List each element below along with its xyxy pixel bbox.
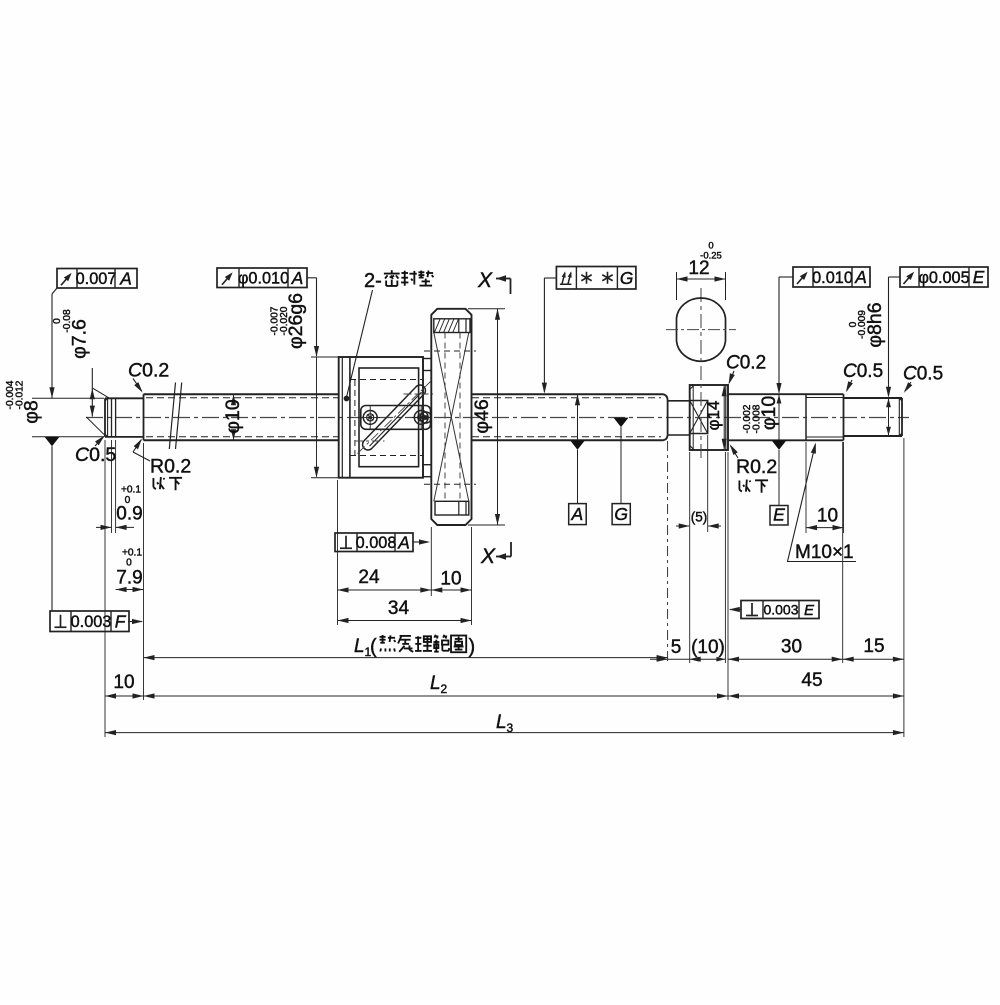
left end stub phi8 with ring groove (105, 398, 144, 437)
datum A triangle and box (569, 394, 587, 524)
svg-text:15: 15 (863, 636, 884, 657)
dimension 10 thread length (806, 442, 844, 533)
svg-text:10: 10 (113, 672, 134, 693)
svg-text:φ14: φ14 (704, 401, 723, 431)
step from phi8 to phi10 (143, 394, 145, 440)
dimension (5) wrench flats length (676, 435, 721, 663)
fillet label R0.2 right (730, 444, 777, 492)
feature control frame: total runout * * G (542, 267, 636, 394)
svg-text:-0.25: -0.25 (700, 251, 722, 262)
svg-text:7.9: 7.9 (116, 568, 142, 589)
dimension 0.9 groove width (96, 440, 143, 533)
svg-text:10: 10 (817, 506, 838, 527)
svg-text:G: G (620, 268, 633, 288)
svg-text:A: A (119, 268, 132, 288)
svg-text:2-: 2- (364, 270, 382, 292)
svg-text:R0.2: R0.2 (736, 456, 777, 478)
dimension (10) journal length (690, 637, 726, 662)
svg-text:): ) (469, 636, 476, 658)
svg-text:G: G (614, 504, 628, 524)
svg-text:C0.5: C0.5 (903, 364, 943, 385)
flange disc phi46 (431, 309, 471, 525)
svg-text:X: X (480, 545, 496, 568)
screw shaft thread region left of nut (144, 394, 339, 440)
svg-text:10: 10 (440, 569, 461, 590)
dimension L1 heat treatment range (144, 635, 668, 660)
svg-text:φ0.005: φ0.005 (918, 269, 969, 287)
feature control frame: perpendicularity 0.008 A (335, 532, 430, 552)
chamfer label C0.2 right (726, 353, 766, 385)
dimension 7.9 (105, 440, 144, 737)
datum E triangle and box (770, 440, 788, 525)
feature control frame: perpendicularity 0.003 E (729, 601, 819, 619)
svg-text:-0.009: -0.009 (857, 310, 868, 339)
feature control frame: runout 0.010 A right (776, 267, 870, 394)
dimension 45 (728, 670, 904, 699)
svg-text:+0.1: +0.1 (122, 548, 142, 559)
dimension phi8h6 with tolerance (848, 302, 891, 436)
svg-text:(10): (10) (691, 637, 725, 658)
M10x1 thread section (806, 394, 844, 440)
svg-text:3: 3 (507, 721, 514, 735)
svg-text:0.007: 0.007 (76, 270, 117, 288)
right phi10 bearing journal (728, 394, 806, 440)
chamfer label C0.2 left (128, 360, 169, 393)
wrench flats box with X (690, 401, 708, 434)
svg-text:φ10: φ10 (222, 399, 244, 433)
svg-text:R0.2: R0.2 (150, 456, 191, 478)
flange hidden bolt hole lines (445, 333, 460, 502)
dimension phi14 journal (704, 385, 727, 450)
svg-text:φ0.010: φ0.010 (238, 270, 289, 288)
svg-text:C0.2: C0.2 (128, 360, 169, 382)
svg-text:L: L (496, 712, 507, 733)
journal vertical centerline (700, 288, 702, 462)
dimension 12 across flats with tolerance (677, 241, 726, 301)
svg-text:34: 34 (388, 598, 410, 619)
svg-text:X: X (477, 269, 493, 292)
svg-text:E: E (804, 602, 815, 619)
svg-text:-0.012: -0.012 (15, 380, 26, 409)
svg-text:-0.008: -0.008 (752, 404, 763, 433)
feature control frame: circular runout 0.007 A (49, 268, 137, 398)
nut name plate with two screws (361, 406, 431, 430)
svg-text:A: A (397, 532, 410, 552)
dimension phi8 with tolerance (5, 380, 104, 437)
svg-text:C0.5: C0.5 (75, 444, 116, 466)
svg-text:A: A (854, 267, 867, 287)
svg-text:30: 30 (781, 637, 802, 658)
svg-text:E: E (773, 505, 785, 525)
svg-text:(: ( (370, 636, 377, 658)
svg-text:-0.020: -0.020 (279, 306, 290, 335)
nut right side seal tabs (423, 351, 476, 484)
chamfer label C0.5 middle (843, 361, 883, 392)
svg-text:2: 2 (441, 682, 448, 696)
grease fitting on nut (420, 412, 431, 423)
dimension 30 (728, 637, 843, 662)
dimension phi26g6 with tolerance (270, 293, 308, 349)
thread undercut groove (668, 401, 690, 435)
svg-text:0.9: 0.9 (116, 504, 142, 525)
horizontal centerline of shaft axis (86, 417, 909, 419)
flange top bolt hole band with hatch (434, 319, 470, 333)
svg-text:A: A (571, 504, 584, 524)
thread label M10x1 (787, 443, 856, 564)
svg-text:L: L (354, 636, 365, 657)
ball nut body phi26 (339, 357, 423, 478)
dimension 24 (338, 567, 432, 593)
feature control frame: runout phi0.005 E (886, 267, 988, 398)
dimension 5 undercut (650, 637, 701, 662)
datum frame F (50, 611, 143, 632)
svg-text:C0.5: C0.5 (843, 361, 883, 382)
svg-text:0.008: 0.008 (356, 534, 397, 552)
extension lines bottom (338, 438, 904, 737)
svg-text:0.003: 0.003 (763, 602, 798, 618)
svg-text:F: F (115, 611, 127, 631)
svg-text:(5): (5) (691, 510, 708, 525)
svg-text:A: A (291, 268, 304, 288)
dimension phi10 on screw shaft (222, 394, 244, 440)
svg-text:-0.08: -0.08 (62, 309, 73, 333)
dimension 15 (843, 636, 904, 662)
wrench flats end view (circle with flats) (666, 298, 736, 361)
dimension phi7.6 groove diameter (52, 309, 109, 435)
dimension L2 (144, 673, 729, 699)
svg-text:M10×1: M10×1 (795, 542, 854, 563)
flange cross diagonals (434, 333, 469, 502)
datum F triangle on phi8 (45, 437, 60, 611)
svg-text:24: 24 (358, 567, 380, 588)
shaft break lines (169, 383, 181, 450)
chamfer label C0.5 far right (903, 364, 943, 393)
svg-text:L: L (430, 673, 441, 694)
svg-text:0.010: 0.010 (812, 269, 853, 287)
svg-text:45: 45 (801, 670, 822, 691)
fillet label R0.2 below left (133, 439, 191, 491)
svg-text:E: E (973, 267, 985, 287)
feature control frame: runout phi0.010 A (217, 268, 340, 478)
dimension 34 (338, 598, 472, 623)
svg-text:+0.1: +0.1 (121, 485, 141, 496)
datum G triangle and box (612, 418, 630, 525)
svg-text:φ46: φ46 (471, 399, 493, 433)
section arrow X top (477, 269, 511, 294)
dimension phi46 flange (468, 309, 505, 525)
phi14 journal with wrench flats (690, 385, 728, 450)
screw shaft thread region right of flange (472, 394, 668, 440)
chamfer label C0.5 left (75, 436, 116, 466)
section arrow X bottom (480, 542, 511, 568)
flange bottom bolt hole band (435, 501, 469, 515)
label 2-seal gasket (2-mifengdian) (344, 270, 434, 401)
phi8h6 end stub (844, 398, 903, 436)
dimension phi10 right with tolerance (742, 394, 781, 440)
svg-text:5: 5 (671, 637, 682, 658)
dimension L3 (105, 712, 904, 735)
dimension 10 (flange width) (431, 569, 471, 593)
svg-text:C0.2: C0.2 (726, 353, 766, 374)
dimension 10 left overall (105, 672, 144, 699)
ball return tube (diagonal capsule) (355, 382, 433, 454)
